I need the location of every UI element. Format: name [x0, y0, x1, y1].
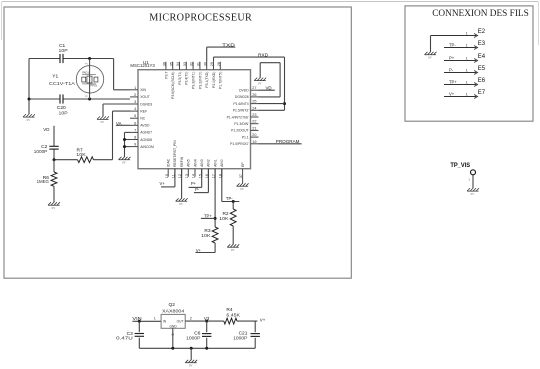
svg-text:REF: REF	[140, 109, 147, 113]
svg-text:GND: GND	[170, 325, 178, 329]
svg-text:8: 8	[134, 136, 136, 140]
svg-text:PROGRAM: PROGRAM	[276, 139, 300, 144]
svg-text:1: 1	[466, 43, 468, 47]
svg-text:P+: P+	[191, 181, 197, 186]
svg-text:29: 29	[210, 62, 214, 66]
svg-text:TP+: TP+	[449, 80, 457, 85]
svg-text:30: 30	[203, 62, 207, 66]
svg-text:1: 1	[154, 316, 156, 320]
svg-text:1000P: 1000P	[233, 336, 247, 341]
svg-text:10K: 10K	[201, 233, 211, 238]
svg-text:1000P: 1000P	[186, 336, 200, 341]
svg-text:0.47U: 0.47U	[116, 336, 133, 341]
svg-text:REFIN: REFIN	[180, 156, 184, 167]
svg-text:V+: V+	[196, 248, 202, 253]
svg-text:20: 20	[252, 133, 256, 137]
svg-text:P3.0(RXD): P3.0(RXD)	[212, 72, 216, 88]
svg-text:P1.7(INT5'): P1.7(INT5')	[219, 72, 223, 89]
svg-text:23: 23	[252, 113, 256, 117]
svg-text:10K: 10K	[219, 216, 229, 221]
svg-text:AIN1: AIN1	[213, 159, 217, 167]
svg-text:P3.6(SCK)(SCLK): P3.6(SCK)(SCLK)	[171, 72, 175, 99]
svg-text:AIN3: AIN3	[200, 159, 204, 167]
svg-text:TP-: TP-	[226, 196, 233, 201]
svg-text:E7: E7	[478, 90, 486, 96]
svg-text:XIN: XIN	[140, 88, 146, 92]
svg-text:CC1V-T1A: CC1V-T1A	[49, 81, 75, 86]
svg-text:AINCOM: AINCOM	[140, 145, 154, 149]
svg-text:VD: VD	[43, 127, 49, 132]
svg-text:PAD1: PAD1	[82, 70, 89, 74]
svg-text:AIN4: AIN4	[193, 159, 197, 167]
svg-text:32: 32	[190, 62, 194, 66]
svg-text:AIN5: AIN5	[187, 159, 191, 167]
svg-text:31: 31	[197, 62, 201, 66]
svg-text:1: 1	[466, 68, 468, 72]
svg-text:DVDD: DVDD	[239, 89, 249, 93]
svg-text:14: 14	[192, 174, 196, 178]
svg-text:V+: V+	[260, 317, 266, 322]
svg-text:P+: P+	[449, 56, 455, 61]
svg-text:P3.4(T0): P3.4(T0)	[185, 72, 189, 85]
svg-text:10P: 10P	[59, 111, 68, 116]
svg-text:DGND3: DGND3	[140, 102, 152, 106]
svg-text:AGND7: AGND7	[140, 131, 152, 135]
svg-text:4: 4	[134, 107, 136, 111]
svg-text:34: 34	[176, 62, 180, 66]
svg-text:VD: VD	[266, 86, 272, 91]
svg-text:V+: V+	[449, 92, 455, 97]
svg-text:E2: E2	[478, 29, 486, 35]
svg-text:AGND8: AGND8	[140, 138, 152, 142]
svg-text:Q2: Q2	[169, 302, 176, 308]
svg-text:CONNEXION DES FILS: CONNEXION DES FILS	[432, 9, 529, 19]
svg-text:P1.4/INT2'/SS': P1.4/INT2'/SS'	[227, 115, 249, 119]
svg-text:OUT: OUT	[177, 320, 184, 324]
svg-text:TP_VIS: TP_VIS	[450, 162, 470, 169]
svg-text:P1.5/INT3': P1.5/INT3'	[233, 109, 249, 113]
svg-text:2: 2	[190, 317, 192, 321]
svg-text:AIN0: AIN0	[220, 159, 224, 167]
svg-text:NC: NC	[140, 117, 145, 121]
svg-text:33: 33	[183, 62, 187, 66]
svg-text:3: 3	[134, 100, 136, 104]
svg-text:P-: P-	[449, 68, 454, 73]
svg-text:P3.7: P3.7	[164, 71, 168, 78]
svg-text:XOUT: XOUT	[140, 95, 149, 99]
svg-text:IDAC: IDAC	[167, 158, 171, 167]
svg-text:1000P: 1000P	[34, 149, 48, 154]
svg-text:24: 24	[252, 106, 256, 110]
svg-text:10K: 10K	[76, 152, 86, 157]
svg-text:9: 9	[134, 143, 136, 147]
svg-text:27: 27	[252, 86, 256, 90]
svg-text:P3.5(T1): P3.5(T1)	[178, 72, 182, 85]
svg-text:1: 1	[466, 92, 468, 96]
svg-text:E4: E4	[478, 54, 486, 60]
svg-text:35: 35	[169, 62, 173, 66]
svg-text:P-: P-	[195, 187, 200, 192]
svg-text:3: 3	[171, 334, 175, 336]
svg-text:21: 21	[252, 126, 256, 130]
svg-text:37: 37	[239, 174, 243, 178]
svg-text:5: 5	[134, 114, 136, 118]
svg-text:P1.0/PROG': P1.0/PROG'	[230, 142, 249, 146]
svg-text:AVDD: AVDD	[140, 124, 150, 128]
svg-text:TXD: TXD	[222, 42, 235, 47]
svg-text:RESET/RST_PIN: RESET/RST_PIN	[173, 140, 177, 167]
svg-text:Y1: Y1	[52, 74, 58, 80]
svg-text:DGND26: DGND26	[235, 95, 249, 99]
svg-text:1: 1	[466, 80, 468, 84]
svg-text:1: 1	[466, 31, 468, 35]
svg-text:P1.6/INT4: P1.6/INT4	[233, 102, 248, 106]
svg-text:36: 36	[163, 62, 167, 66]
svg-text:TP+: TP+	[204, 214, 212, 219]
svg-text:7: 7	[134, 128, 136, 132]
svg-text:RXD: RXD	[258, 52, 268, 57]
svg-text:V+: V+	[160, 181, 166, 186]
svg-text:E3: E3	[478, 41, 486, 47]
svg-text:19: 19	[252, 140, 256, 144]
svg-text:E5: E5	[478, 66, 486, 72]
svg-text:2: 2	[134, 93, 136, 97]
svg-text:1: 1	[134, 86, 136, 90]
svg-text:PPG1: PPG1	[91, 84, 98, 88]
svg-text:TP-: TP-	[449, 43, 456, 48]
svg-text:P1.1: P1.1	[242, 135, 249, 139]
svg-text:P1.2/DOUT: P1.2/DOUT	[231, 129, 249, 133]
svg-text:MSC1201Y3: MSC1201Y3	[130, 63, 155, 68]
svg-text:P1.3/DIN': P1.3/DIN'	[234, 122, 249, 126]
svg-text:26: 26	[252, 93, 256, 97]
svg-text:22: 22	[252, 120, 256, 124]
svg-text:28: 28	[217, 62, 221, 66]
svg-text:P3.3(INT1'): P3.3(INT1')	[192, 72, 196, 89]
svg-text:AIN2: AIN2	[207, 159, 211, 167]
svg-text:EP: EP	[241, 162, 245, 167]
svg-text:E6: E6	[478, 78, 486, 84]
svg-text:P3.2(INT0'): P3.2(INT0')	[198, 72, 202, 89]
svg-text:6: 6	[134, 121, 136, 125]
svg-text:13: 13	[185, 174, 189, 178]
svg-text:P3.1(TXD): P3.1(TXD)	[205, 72, 209, 88]
svg-text:1MEG: 1MEG	[37, 179, 50, 184]
svg-text:1: 1	[466, 56, 468, 60]
svg-text:XAX8004: XAX8004	[162, 309, 185, 314]
svg-text:6.45K: 6.45K	[226, 312, 240, 317]
svg-text:25: 25	[252, 100, 256, 104]
svg-text:10: 10	[165, 174, 169, 178]
svg-text:10P: 10P	[59, 48, 68, 53]
svg-text:MICROPROCESSEUR: MICROPROCESSEUR	[149, 12, 252, 23]
